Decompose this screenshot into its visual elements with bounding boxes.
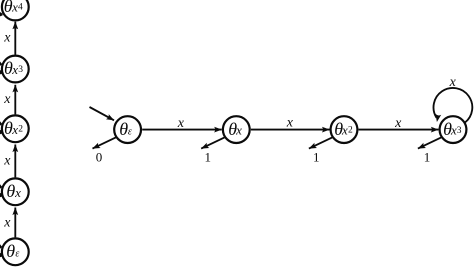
wire: clipped incoming-arrow fragment left of theta_x3 bbox=[0, 62, 2, 66]
wire: clipped outgoing-arrow fragment left of theta_e bbox=[0, 253, 3, 257]
wire: clipped incoming-arrow fragment left of theta_x bbox=[0, 184, 2, 188]
svg-text:x: x bbox=[3, 92, 11, 107]
svg-text:x: x bbox=[394, 116, 402, 131]
svg-text:1: 1 bbox=[424, 149, 431, 164]
wire: arrow theta_x3 -> theta_x4 (up) bbox=[14, 22, 16, 55]
wire: start arrow into chain theta_e bbox=[90, 107, 115, 120]
svg-text:4: 4 bbox=[18, 2, 23, 12]
wire: clipped incoming-arrow fragment left of theta_e bbox=[0, 244, 2, 248]
svg-text:3: 3 bbox=[18, 65, 23, 75]
wire: clipped outgoing-arrow fragment left of theta_x3 bbox=[0, 70, 3, 74]
svg-text:x: x bbox=[3, 154, 11, 169]
svg-text:2: 2 bbox=[18, 125, 23, 135]
wire: arrow theta_x2 -> theta_x3 (up) bbox=[14, 85, 16, 115]
wire: clipped outgoing-arrow fragment left of theta_x2 bbox=[0, 130, 3, 134]
svg-text:θ: θ bbox=[6, 241, 15, 261]
svg-text:x: x bbox=[14, 185, 21, 200]
wire: arrow theta_x -> theta_x2 bbox=[251, 129, 330, 131]
svg-text:x: x bbox=[3, 215, 11, 230]
wire: output arrow from theta_x bbox=[201, 137, 225, 149]
node theta_epsilon (left column bottom) bbox=[2, 238, 29, 265]
node chain theta_epsilon bbox=[114, 116, 141, 143]
svg-text:x: x bbox=[341, 123, 348, 138]
svg-text:0: 0 bbox=[96, 149, 103, 164]
svg-text:x: x bbox=[449, 75, 457, 90]
node chain theta_x2 bbox=[331, 116, 358, 143]
wire: arrow theta_x2 -> theta_x3 bbox=[359, 129, 439, 131]
wire: clipped outgoing-arrow fragment left of theta_x4 bbox=[0, 12, 3, 16]
svg-text:x: x bbox=[286, 116, 294, 131]
node chain theta_x3 bbox=[440, 116, 467, 143]
node theta_x3 (left column) bbox=[2, 56, 29, 83]
wire: arrow theta_e -> theta_x bbox=[142, 129, 222, 131]
wire: arrow theta_e -> theta_x (up) bbox=[14, 208, 16, 238]
svg-text:3: 3 bbox=[457, 126, 462, 136]
svg-text:1: 1 bbox=[204, 149, 211, 164]
wire: output arrow from theta_x2 bbox=[309, 137, 333, 149]
wire: output arrow from theta_e bbox=[93, 137, 117, 149]
node theta_x2 (left column) bbox=[2, 115, 29, 142]
svg-text:x: x bbox=[235, 123, 242, 138]
svg-text:ε: ε bbox=[128, 127, 132, 138]
arrowhead of self-loop bbox=[435, 114, 441, 122]
svg-text:2: 2 bbox=[348, 126, 353, 136]
wire: arrow theta_x -> theta_x2 (up) bbox=[14, 145, 16, 178]
wire: output arrow from theta_x3 bbox=[418, 137, 442, 149]
wire: clipped outgoing-arrow fragment left of theta_x bbox=[0, 193, 3, 197]
node chain theta_x bbox=[223, 116, 250, 143]
svg-text:x: x bbox=[3, 30, 11, 45]
svg-text:x: x bbox=[177, 116, 185, 131]
svg-text:θ: θ bbox=[6, 181, 15, 201]
node theta_x4 (left column top, cut off by frame) bbox=[2, 0, 29, 20]
node theta_x (left column) bbox=[2, 178, 29, 205]
wire: self-loop on theta_x3 bbox=[434, 88, 473, 123]
svg-text:ε: ε bbox=[15, 249, 19, 260]
wire: clipped incoming-arrow fragment left of theta_x2 bbox=[0, 121, 2, 125]
svg-text:1: 1 bbox=[313, 149, 320, 164]
